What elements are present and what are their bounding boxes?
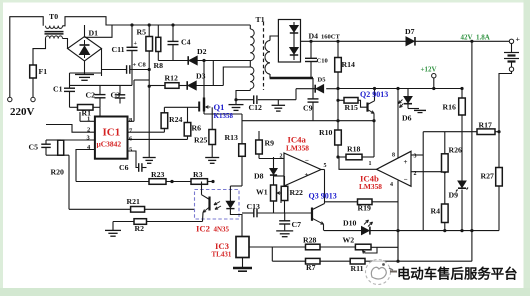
resistor R7 xyxy=(306,258,321,264)
svg-text:1: 1 xyxy=(369,161,372,167)
svg-text:D6: D6 xyxy=(402,114,412,123)
svg-text:IC2: IC2 xyxy=(196,224,210,234)
svg-text:R20: R20 xyxy=(51,168,65,177)
svg-text:+: + xyxy=(404,158,408,166)
resistor R20 xyxy=(60,139,62,141)
diode D10 LED xyxy=(362,227,370,235)
wire R13 to LED xyxy=(230,185,242,187)
ground R25 xyxy=(205,157,219,159)
wire mid rail xyxy=(422,132,424,231)
svg-text:R4: R4 xyxy=(431,207,441,216)
svg-text:C3: C3 xyxy=(111,91,121,100)
wire secondary bus xyxy=(270,77,313,80)
wire R5 column xyxy=(148,51,150,157)
resistor R18 xyxy=(338,156,346,158)
svg-text:C4: C4 xyxy=(181,38,191,47)
resistor R10 xyxy=(335,130,342,145)
wire IC4b pin4 xyxy=(397,181,399,262)
svg-text:C1: C1 xyxy=(53,85,63,94)
border band bottom xyxy=(0,288,530,296)
resistor R14 xyxy=(337,41,339,57)
node battery minus xyxy=(509,67,513,71)
wire R17 row xyxy=(423,131,477,133)
capacitor C7 xyxy=(284,213,286,221)
battery BT1 xyxy=(511,44,513,53)
svg-text:−: − xyxy=(305,157,309,165)
resistor R25 xyxy=(211,107,213,129)
wire battery minus rail xyxy=(499,71,512,167)
ground bridge xyxy=(75,74,94,76)
capacitor C2 xyxy=(99,85,101,94)
svg-text:R19: R19 xyxy=(358,204,372,213)
svg-text:D5: D5 xyxy=(318,77,327,84)
svg-text:R10: R10 xyxy=(319,128,333,137)
svg-text:1: 1 xyxy=(87,116,90,123)
wire D3 to T1 tap xyxy=(223,67,250,86)
capacitor C4 xyxy=(172,25,174,41)
wire fuse branch xyxy=(32,78,34,97)
svg-text:R28: R28 xyxy=(303,236,317,245)
svg-text:LM358: LM358 xyxy=(359,182,382,191)
svg-text:R13: R13 xyxy=(225,133,239,142)
capacitor C6 xyxy=(138,163,140,172)
svg-text:T1: T1 xyxy=(256,15,265,24)
wire IC1 pin2 xyxy=(46,125,95,133)
svg-text:+: + xyxy=(305,171,309,179)
capacitor C10 xyxy=(310,41,312,58)
border band right xyxy=(524,0,530,296)
potentiometer W1 xyxy=(273,176,275,185)
transformer T1 primary xyxy=(249,25,251,29)
svg-text:5: 5 xyxy=(324,163,327,169)
svg-text:C11: C11 xyxy=(112,45,125,54)
svg-text:42V 1.8A: 42V 1.8A xyxy=(461,34,490,42)
resistor R9 xyxy=(258,154,260,159)
wire cap row xyxy=(70,84,133,86)
node battery plus xyxy=(509,39,513,43)
svg-text:Q3 9013: Q3 9013 xyxy=(309,192,337,201)
resistor R2 xyxy=(134,219,147,225)
optocoupler transistor xyxy=(208,197,210,211)
svg-text:电动车售后服务平台: 电动车售后服务平台 xyxy=(397,266,518,282)
wire bridge bottom xyxy=(84,61,86,75)
svg-text:T0: T0 xyxy=(49,12,58,21)
optocoupler light arrows xyxy=(214,202,220,205)
wire gate row xyxy=(164,106,186,108)
wire IC1 pin5 xyxy=(128,151,139,168)
svg-text:W1: W1 xyxy=(256,188,268,197)
ground R2 xyxy=(112,222,114,231)
capacitor C8 xyxy=(102,69,127,71)
svg-text:IC1: IC1 xyxy=(103,127,121,139)
wire TL431 bottom xyxy=(242,258,244,268)
wire IC1 pin1 xyxy=(80,120,95,122)
svg-text:D9: D9 xyxy=(449,191,459,200)
node junction R23 xyxy=(170,180,173,183)
resistor R6 xyxy=(187,107,189,122)
svg-text:C2: C2 xyxy=(86,91,96,100)
wire R28-W2 xyxy=(320,246,355,248)
svg-text:2: 2 xyxy=(414,171,417,177)
svg-text:R18: R18 xyxy=(347,145,361,154)
wire C1 bottom xyxy=(69,91,71,107)
resistor R11 xyxy=(350,258,365,264)
diode D7 xyxy=(406,37,414,46)
wire R7 row xyxy=(272,260,305,262)
wire 12V row xyxy=(338,88,462,90)
wire IC4a in- row xyxy=(259,158,284,160)
wire R21 row xyxy=(69,208,131,210)
wire drain riser xyxy=(203,61,205,98)
svg-text:C9: C9 xyxy=(303,104,313,113)
transformer T1 core xyxy=(263,22,265,90)
border band left xyxy=(0,0,3,296)
svg-text:4: 4 xyxy=(390,182,393,188)
wire IC4b out xyxy=(339,157,377,169)
svg-text:R6: R6 xyxy=(192,124,202,133)
svg-text:R24: R24 xyxy=(169,115,183,124)
wire IC4a out xyxy=(321,169,325,171)
svg-text:Q2 9013: Q2 9013 xyxy=(360,90,388,99)
node junctions xyxy=(148,85,151,88)
op-amp U4a LM358 xyxy=(284,153,321,186)
svg-text:R17: R17 xyxy=(479,121,493,130)
svg-text:R11: R11 xyxy=(351,264,364,273)
bridge rectifier D1 xyxy=(68,37,102,62)
ground main column xyxy=(143,157,156,159)
capacitor C11 xyxy=(131,25,133,47)
wire 42V rail xyxy=(471,41,473,261)
watermark logo xyxy=(366,260,391,285)
diode D5 xyxy=(312,78,314,89)
svg-text:R22: R22 xyxy=(290,188,304,197)
svg-text:220V: 220V xyxy=(10,106,35,118)
svg-text:4N35: 4N35 xyxy=(214,226,230,234)
svg-text:R12: R12 xyxy=(165,74,179,83)
IC U3 TL431 xyxy=(236,237,249,258)
ground C12 xyxy=(277,100,279,105)
fuse F1 xyxy=(30,65,37,78)
resistor R26 xyxy=(444,132,446,154)
svg-text:160CT: 160CT xyxy=(321,34,340,41)
svg-text:Q1: Q1 xyxy=(214,102,225,112)
ground TL431 xyxy=(233,267,252,269)
wire D2 row xyxy=(158,60,188,62)
resistor R17 xyxy=(477,129,495,135)
ground C7 xyxy=(276,230,293,232)
resistor R13 xyxy=(241,114,243,144)
svg-text:D10: D10 xyxy=(343,219,357,228)
wire IC1 pin7 xyxy=(128,131,165,133)
svg-text:K1358: K1358 xyxy=(214,112,234,120)
wire output rail xyxy=(301,40,407,42)
svg-text:R9: R9 xyxy=(265,139,275,148)
resistor R15 xyxy=(338,99,344,101)
svg-text:+12V: +12V xyxy=(421,66,437,74)
wire IC4b in+ link xyxy=(411,154,423,156)
wire VCC row xyxy=(134,79,149,81)
svg-text:+ C8: + C8 xyxy=(133,62,147,69)
resistor R16 xyxy=(461,89,463,99)
transformer T1 secondary xyxy=(265,41,270,52)
resistor R3 xyxy=(191,179,208,185)
svg-text:TL431: TL431 xyxy=(212,251,232,259)
wire mains top rail xyxy=(10,17,43,98)
power +12V xyxy=(432,74,436,78)
transistor Q3 9013 xyxy=(311,208,313,221)
svg-text:D3: D3 xyxy=(196,72,206,81)
svg-text:C6: C6 xyxy=(119,163,129,172)
resistor R21 xyxy=(131,207,145,213)
svg-text:R8: R8 xyxy=(154,61,164,70)
node junction R10 xyxy=(336,155,339,158)
wire bottom rail xyxy=(324,230,361,232)
wire Q2 emitter xyxy=(373,113,375,120)
svg-text:R7: R7 xyxy=(306,263,316,272)
capacitor C13 xyxy=(253,209,255,218)
svg-text:3: 3 xyxy=(414,154,417,160)
svg-text:R25: R25 xyxy=(194,136,208,145)
resistor R4 xyxy=(442,204,449,223)
svg-text:8: 8 xyxy=(392,153,395,159)
svg-text:R21: R21 xyxy=(127,197,141,206)
resistor R19 xyxy=(358,199,373,205)
resistor R5 xyxy=(148,25,150,37)
node junction C9row xyxy=(336,99,339,102)
wire IC1 pin6 xyxy=(128,138,188,140)
node 220V terminal right xyxy=(31,97,35,101)
capacitor C1 xyxy=(64,87,75,89)
resistor R1 xyxy=(70,106,78,108)
svg-text:C12: C12 xyxy=(249,103,263,112)
svg-text:LM358: LM358 xyxy=(286,144,309,153)
svg-text:D7: D7 xyxy=(405,27,415,36)
op-amp U4b LM358 xyxy=(377,151,412,186)
wire TL431 right xyxy=(249,246,306,248)
resistor R27 xyxy=(496,168,503,187)
svg-text:W2: W2 xyxy=(343,236,355,245)
wire bridge right down xyxy=(101,49,103,77)
wire R20 down xyxy=(68,155,70,209)
wire IC1 pin4 xyxy=(76,150,95,182)
transistor Q1 xyxy=(198,102,200,112)
resistor R12 xyxy=(165,83,179,89)
svg-text:C10: C10 xyxy=(317,58,328,65)
wire C13 row xyxy=(242,212,254,214)
ground Q1 source xyxy=(229,104,244,106)
wire aux ground link xyxy=(236,91,250,105)
svg-text:C13: C13 xyxy=(247,202,261,211)
svg-text:−: − xyxy=(404,176,408,184)
svg-text:R14: R14 xyxy=(342,60,356,69)
transistor Q2 9013 xyxy=(358,100,368,107)
wire R12 row xyxy=(149,85,165,87)
capacitor C5 xyxy=(45,140,47,144)
diode D6 LED xyxy=(407,89,409,97)
svg-text:R26: R26 xyxy=(449,146,463,155)
IC U1 uC3842 xyxy=(95,117,128,159)
wire Q2 collector xyxy=(374,89,376,101)
wire T0 to bridge xyxy=(63,39,68,49)
diode D2 xyxy=(189,56,197,65)
wire W2 right xyxy=(371,246,377,248)
ground D6 xyxy=(408,108,419,110)
resistor R23 xyxy=(149,179,166,185)
node 220V terminal left xyxy=(8,97,12,101)
optocoupler LED xyxy=(229,186,231,201)
wire aux vertical xyxy=(212,61,214,86)
transformer T0 xyxy=(46,26,50,29)
svg-text:D4: D4 xyxy=(309,32,319,41)
resistor R24 xyxy=(163,107,165,113)
diode D8 xyxy=(273,167,275,169)
svg-text:2: 2 xyxy=(87,127,90,134)
node junction R14 xyxy=(336,87,339,90)
svg-text:+: + xyxy=(134,41,138,47)
wire bridge top to rail xyxy=(84,25,86,37)
wire R2 row xyxy=(113,221,134,223)
svg-text:μC3842: μC3842 xyxy=(97,140,122,149)
wire C9 row xyxy=(236,99,254,101)
svg-text:F1: F1 xyxy=(39,67,48,76)
resistor R28 xyxy=(306,244,321,250)
resistor R22 xyxy=(284,176,286,186)
wire Q1 source row xyxy=(204,113,242,115)
wire pin4 bottom xyxy=(397,231,399,262)
wire IC4b in- link xyxy=(411,171,445,173)
svg-text:R2: R2 xyxy=(135,224,145,233)
svg-text:D8: D8 xyxy=(254,172,264,181)
wire IC4b pin8 xyxy=(397,89,399,159)
svg-text:+: + xyxy=(516,35,521,44)
wire IC4a in+ row xyxy=(274,175,285,177)
border band top xyxy=(0,0,530,3)
svg-text:D2: D2 xyxy=(197,47,207,56)
svg-text:R15: R15 xyxy=(345,103,359,112)
wire R1 to IC1 xyxy=(99,107,101,116)
IC U2 4N35 box xyxy=(195,190,240,220)
capacitor C9 xyxy=(312,89,314,99)
rectifier D4 xyxy=(278,20,300,63)
wire T0 to top rail xyxy=(63,17,251,26)
svg-text:IC3: IC3 xyxy=(215,241,230,251)
svg-text:R5: R5 xyxy=(137,28,147,37)
svg-text:D1: D1 xyxy=(89,29,99,38)
diode D9 zener xyxy=(458,181,466,187)
svg-text:R23: R23 xyxy=(151,170,165,179)
svg-text:R27: R27 xyxy=(481,172,495,181)
capacitor C3 xyxy=(119,85,121,94)
resistor R8 xyxy=(157,25,159,37)
wire R19 row xyxy=(325,201,358,203)
potentiometer W2 xyxy=(355,244,371,250)
svg-text:R3: R3 xyxy=(193,170,203,179)
diode D3 xyxy=(188,81,196,90)
wire R23 row xyxy=(76,181,149,183)
capacitor C12 xyxy=(253,95,255,104)
svg-text:2: 2 xyxy=(280,154,283,160)
wire C1 top row xyxy=(70,72,102,74)
svg-text:C5: C5 xyxy=(29,143,39,152)
wire IC1 pin8 xyxy=(128,120,135,122)
svg-text:R16: R16 xyxy=(443,103,457,112)
wire IC1 pin3 xyxy=(46,139,95,141)
svg-text:C7: C7 xyxy=(292,220,302,229)
